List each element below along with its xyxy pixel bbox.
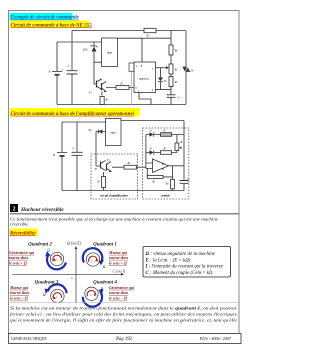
svg-text:R2: R2 (165, 182, 169, 185)
svg-text:Réversibilité: Réversibilité (10, 231, 36, 236)
svg-text:tourne dans: tourne dans (9, 256, 29, 260)
svg-text:Ω: Ω (103, 265, 106, 269)
svg-text:R4: R4 (174, 50, 178, 53)
svg-text:tourne dans: tourne dans (10, 291, 30, 295)
svg-text:Hacheur réversible: Hacheur réversible (20, 207, 64, 213)
svg-text:D1: D1 (163, 80, 167, 83)
svg-text:2: 2 (13, 207, 16, 213)
svg-text:réversible.: réversible. (10, 222, 30, 227)
svg-text:le sens − Ω: le sens − Ω (109, 297, 127, 301)
svg-text:Ω (ou E): Ω (ou E) (67, 240, 82, 245)
svg-text:D': D' (149, 147, 153, 150)
svg-text:R'': R'' (163, 148, 167, 151)
svg-text:Circuit de commande à base de: Circuit de commande à base de l'amplific… (11, 112, 135, 117)
svg-text:Quadrant 3: Quadrant 3 (35, 281, 59, 286)
svg-text:E: E (52, 153, 56, 157)
svg-text:R': R' (163, 130, 167, 133)
svg-text:qui économisent de l'énergie.: qui économisent de l'énergie. Il suffit … (10, 317, 237, 323)
svg-text:D3: D3 (190, 70, 194, 73)
svg-text:T2: T2 (89, 91, 93, 95)
svg-text:E : la f.é.m. : (E = kΩ): E : la f.é.m. : (E = kΩ) (145, 258, 191, 263)
svg-text:+: + (62, 68, 64, 72)
svg-text:Moteur qui: Moteur qui (9, 286, 29, 290)
svg-text:Ω: Ω (47, 249, 50, 253)
svg-text:I : l'intensité du courant qui: I : l'intensité du courant qui la traver… (145, 265, 224, 270)
svg-text:E: E (48, 70, 52, 74)
svg-text:R1: R1 (146, 34, 150, 38)
svg-text:o: o (71, 276, 73, 280)
svg-text:Circuit de commande à base de: Circuit de commande à base de NE 555 (11, 23, 93, 28)
svg-text:circuit d'amplification: circuit d'amplification (100, 193, 128, 197)
svg-text:C: C (68, 64, 71, 68)
svg-text:tourne dans: tourne dans (109, 256, 129, 260)
svg-text:Ω: Ω (43, 293, 46, 297)
svg-text:astable: astable (161, 193, 170, 197)
svg-text:Rb: Rb (127, 162, 131, 165)
svg-text:D: D (149, 129, 152, 132)
svg-text:Quadrant 2: Quadrant 2 (28, 242, 52, 247)
svg-text:R: R (97, 181, 100, 184)
svg-text:C (ou I): C (ou I) (113, 268, 126, 273)
svg-text:Pag 192: Pag 192 (115, 337, 133, 342)
svg-text:R5: R5 (174, 81, 178, 84)
svg-text:le sens + Ω: le sens + Ω (109, 261, 127, 265)
svg-text:DZ1: DZ1 (82, 47, 88, 51)
svg-text:le sens − Ω: le sens − Ω (10, 297, 28, 301)
svg-text:T1: T1 (95, 167, 98, 171)
svg-text:Quadrant 1: Quadrant 1 (93, 242, 117, 247)
svg-text:opto: opto (107, 51, 113, 55)
svg-text:T1: T1 (100, 78, 103, 82)
svg-text:BTS - 2006 / 2007: BTS - 2006 / 2007 (200, 336, 231, 341)
svg-text:R7: R7 (174, 69, 179, 72)
svg-text:R: R (120, 81, 123, 85)
svg-text:C : Moment du couple (Cem = kI: C : Moment du couple (Cem = kI) (146, 271, 213, 276)
svg-text:C: C (73, 147, 76, 151)
svg-text:le sens + Ω: le sens + Ω (9, 261, 27, 265)
svg-text:R1: R1 (152, 180, 156, 183)
svg-text:Génératrice qui: Génératrice qui (109, 286, 135, 290)
svg-text:tourne dans: tourne dans (109, 291, 129, 295)
svg-text:Génératrice qui: Génératrice qui (9, 251, 35, 255)
svg-text:Ω : vitesse angulaire de la ma: Ω : vitesse angulaire de la machine (146, 252, 216, 257)
svg-text:Ce fonctionnement n'est possib: Ce fonctionnement n'est possible que si … (10, 216, 218, 221)
svg-text:Dz: Dz (88, 128, 92, 132)
svg-text:T2: T2 (107, 158, 111, 162)
svg-text:R2: R2 (105, 99, 109, 102)
svg-text:NE555: NE555 (139, 77, 149, 81)
svg-text:opto: opto (111, 131, 117, 135)
svg-text:Moteur qui: Moteur qui (108, 251, 128, 255)
svg-text:C1: C1 (187, 178, 190, 181)
svg-text:Ω: Ω (101, 287, 104, 291)
svg-text:GENIE ELECTRIQUE: GENIE ELECTRIQUE (11, 337, 47, 341)
svg-text:Exemple de circuit de commande: Exemple de circuit de commande (10, 16, 80, 21)
svg-text:R: R (180, 141, 183, 144)
svg-text:C2: C2 (178, 96, 181, 99)
